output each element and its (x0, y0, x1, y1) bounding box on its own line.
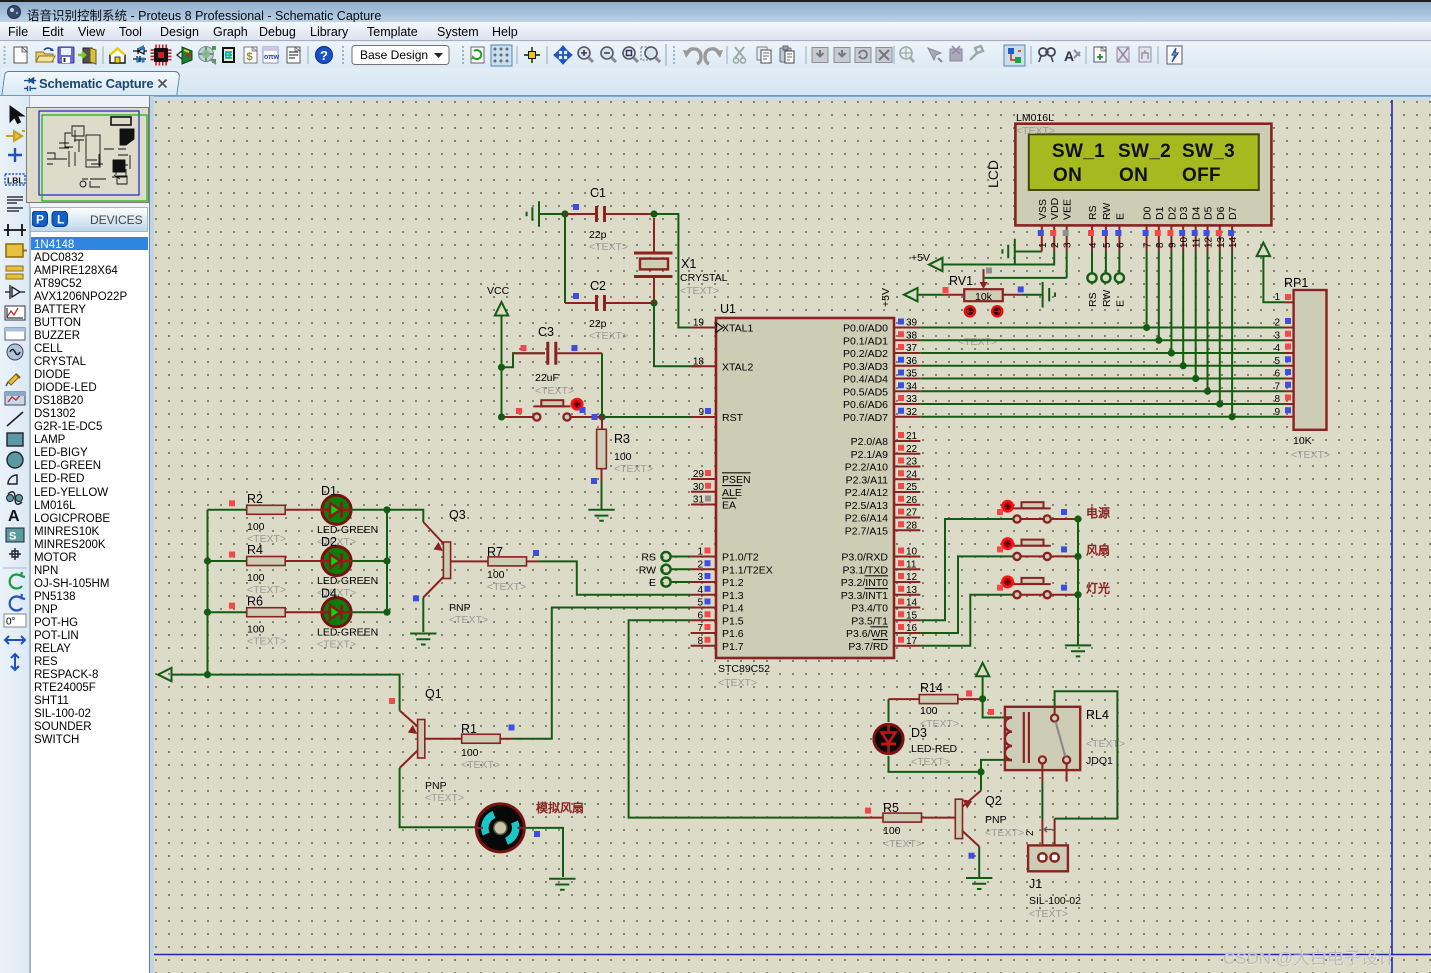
svg-text:P2.7/A15: P2.7/A15 (845, 525, 888, 537)
wire from pin 16 (920, 556, 1013, 633)
resistor R5 (883, 813, 922, 822)
svg-text:D4: D4 (1191, 206, 1203, 220)
junction (498, 364, 505, 371)
svg-text:22p: 22p (589, 318, 607, 330)
svg-text:<TEXT>: <TEXT> (425, 792, 464, 804)
svg-text:VDD: VDD (1049, 197, 1061, 220)
junction (1155, 337, 1162, 344)
svg-text:Q3: Q3 (449, 508, 466, 522)
wire (172, 675, 400, 711)
svg-text:J1: J1 (1029, 877, 1042, 891)
svg-text:25: 25 (906, 482, 918, 493)
svg-text:XTAL2: XTAL2 (722, 361, 753, 373)
svg-text:<TEXT>: <TEXT> (449, 614, 488, 626)
junction (561, 210, 568, 217)
wire D5 (1207, 252, 1209, 392)
svg-text:100: 100 (614, 451, 632, 463)
wire (601, 353, 603, 417)
svg-text:LCD: LCD (985, 160, 1001, 188)
button 灯光 (1014, 583, 1051, 585)
wire (539, 213, 565, 215)
pin 29 PSEN (691, 478, 716, 480)
wire (352, 560, 387, 562)
svg-text:7: 7 (697, 623, 703, 634)
svg-text:<TEXT>: <TEXT> (317, 638, 356, 650)
svg-text:JDQ1: JDQ1 (1086, 755, 1113, 767)
wire (983, 699, 1005, 718)
svg-text:R7: R7 (487, 545, 503, 559)
svg-text:STC89C52: STC89C52 (718, 663, 770, 675)
wire D7 (1231, 252, 1233, 417)
pin 2 (RP1) (1284, 327, 1294, 329)
svg-text:P0.6/AD6: P0.6/AD6 (843, 399, 888, 411)
svg-text:7: 7 (1143, 242, 1154, 248)
svg-text:RW: RW (1101, 290, 1113, 307)
svg-text:SW_2: SW_2 (1118, 141, 1171, 162)
junction (1180, 362, 1187, 369)
node RS (LCD) (1091, 252, 1093, 274)
svg-text:<TEXT>: <TEXT> (535, 385, 574, 397)
wire relay NC stub (1066, 764, 1068, 782)
svg-text:P1.3: P1.3 (722, 590, 744, 602)
wire P0.2 bus (920, 352, 1284, 354)
svg-text:E: E (1114, 300, 1126, 307)
svg-text:D4: D4 (321, 586, 337, 600)
pin 37 P0.2/AD2 (894, 352, 920, 354)
svg-text:26: 26 (906, 495, 918, 506)
svg-text:13: 13 (1216, 236, 1227, 248)
wire (513, 608, 691, 739)
svg-text:6: 6 (1274, 369, 1280, 380)
junction (1143, 324, 1150, 331)
svg-text:10K: 10K (1293, 435, 1312, 447)
svg-text:Q1: Q1 (425, 687, 442, 701)
wire relay pole to J1 (1041, 764, 1043, 783)
pin 2 P1.1/T2EX (691, 568, 716, 570)
pin 28 P2.7/A15 (894, 529, 920, 531)
svg-text:R2: R2 (247, 492, 263, 506)
svg-text:100: 100 (247, 623, 265, 635)
wire P0.0 bus (920, 327, 1284, 329)
svg-text:+5V: +5V (880, 288, 892, 307)
svg-text:P1.6: P1.6 (722, 628, 744, 640)
svg-text:LBL: LBL (7, 176, 24, 186)
pin 3 (RP1) (1284, 339, 1294, 341)
LED D4 (LED-GREEN) (322, 598, 351, 627)
svg-text:16: 16 (906, 623, 918, 634)
svg-text:A: A (1064, 48, 1074, 64)
svg-text:9: 9 (1274, 407, 1280, 418)
relay RL4 (JDQ1) (1005, 707, 1080, 770)
svg-text:32: 32 (906, 407, 918, 418)
wire relay NO loop (1054, 707, 1056, 715)
svg-text:1: 1 (697, 547, 703, 558)
svg-text:VCC: VCC (487, 285, 510, 297)
svg-text:U1: U1 (720, 302, 736, 316)
pin 11 P3.1/TXD (894, 568, 920, 570)
svg-text:RST: RST (722, 412, 744, 424)
svg-text:31: 31 (693, 495, 705, 506)
svg-text:RS: RS (641, 552, 656, 564)
ground (966, 878, 992, 889)
svg-text:<TEXT>: <TEXT> (589, 241, 628, 253)
pin 26 P2.5/A13 (894, 504, 920, 506)
junction (1192, 375, 1199, 382)
svg-text:<TEXT>: <TEXT> (718, 677, 757, 689)
pin 16 P3.6/WR (894, 632, 920, 634)
pin 14 P3.4/T0 (894, 607, 920, 609)
svg-text:8: 8 (1274, 394, 1280, 405)
svg-text:19: 19 (693, 318, 705, 329)
svg-text:电源: 电源 (1086, 505, 1110, 520)
pin 31 EA (691, 504, 716, 506)
svg-text:12: 12 (906, 572, 918, 583)
wire P0.4 bus (920, 378, 1284, 380)
svg-text:LED-GREEN: LED-GREEN (317, 524, 378, 536)
svg-text:100: 100 (461, 747, 479, 759)
svg-text:<TEXT>: <TEXT> (1291, 449, 1330, 461)
pin 17 P3.7/RD (894, 645, 920, 647)
svg-text:P3.1/TXD: P3.1/TXD (842, 564, 888, 576)
svg-text:<TEXT>: <TEXT> (461, 759, 500, 771)
svg-text:X1: X1 (681, 257, 696, 271)
svg-text:P2.4/A12: P2.4/A12 (845, 487, 888, 499)
power arrow left (158, 668, 172, 681)
pin 6 (RP1) (1284, 378, 1294, 380)
svg-text:SW_1: SW_1 (1052, 141, 1105, 162)
svg-text:<TEXT>: <TEXT> (958, 336, 997, 348)
svg-text:5: 5 (697, 598, 703, 609)
svg-text:LM016L: LM016L (1016, 112, 1054, 124)
pin 30 ALE (691, 491, 716, 493)
wire D2 (1170, 252, 1172, 354)
svg-text:PNP: PNP (985, 814, 1007, 826)
svg-text:Base Design: Base Design (360, 48, 428, 62)
pin 1 (RP1) (1284, 301, 1294, 303)
svg-text:RS: RS (1087, 292, 1099, 307)
svg-text:LED-RED: LED-RED (911, 743, 958, 755)
svg-text:RL4: RL4 (1086, 708, 1109, 722)
transistor Q2 (PNP) (980, 772, 982, 791)
svg-text:7: 7 (1274, 381, 1280, 392)
ground (LCD VSS) (1015, 251, 1042, 253)
junction (1074, 553, 1081, 560)
wire D1 (1158, 252, 1160, 341)
wire (502, 353, 546, 367)
resistor R1 (462, 734, 501, 743)
svg-text:?: ? (320, 48, 328, 63)
pin 10 P3.0/RXD (894, 556, 920, 558)
svg-text:P0.4/AD4: P0.4/AD4 (843, 374, 888, 386)
svg-text:P1.0/T2: P1.0/T2 (722, 552, 759, 564)
svg-text:P3.0/RXD: P3.0/RXD (841, 552, 888, 564)
svg-text:100: 100 (487, 569, 505, 581)
svg-text:36: 36 (906, 356, 918, 367)
svg-text:PNP: PNP (425, 780, 447, 792)
svg-text:P3.2/INT0: P3.2/INT0 (841, 577, 888, 589)
resistor R3 (601, 417, 603, 429)
svg-text:29: 29 (693, 469, 705, 480)
svg-text:100: 100 (883, 825, 901, 837)
wire VEE (1066, 252, 1068, 278)
svg-text:18: 18 (693, 356, 705, 367)
svg-text:P2.2/A10: P2.2/A10 (845, 462, 888, 474)
svg-text:6: 6 (1115, 242, 1126, 248)
svg-text:P2.0/A8: P2.0/A8 (851, 436, 889, 448)
ground (1065, 645, 1091, 656)
junction (1074, 515, 1081, 522)
svg-text:3: 3 (1063, 242, 1074, 248)
wire P0.1 bus (920, 339, 1284, 341)
svg-text:P3.7/RD: P3.7/RD (848, 641, 888, 653)
svg-text:0°: 0° (6, 617, 16, 628)
svg-text:13: 13 (906, 585, 918, 596)
svg-text:<TEXT>: <TEXT> (589, 330, 628, 342)
svg-text:P0.0/AD0: P0.0/AD0 (843, 323, 888, 335)
transistor Q3 (PNP) (423, 522, 443, 544)
svg-text:P1.2: P1.2 (722, 577, 744, 589)
svg-text:33: 33 (906, 394, 918, 405)
wire (978, 847, 980, 878)
wire (889, 756, 982, 772)
pin 13 P3.3/INT1 (894, 594, 920, 596)
junction (1204, 388, 1211, 395)
svg-text:4: 4 (1274, 343, 1280, 354)
svg-text:R6: R6 (247, 594, 263, 608)
ground (549, 879, 575, 890)
svg-text:15: 15 (906, 610, 918, 621)
svg-text:38: 38 (906, 330, 918, 341)
svg-text:14: 14 (906, 598, 918, 609)
svg-text:P: P (36, 213, 44, 227)
svg-text:<TEXT>: <TEXT> (247, 635, 286, 647)
svg-text:XTAL1: XTAL1 (722, 323, 753, 335)
svg-text:P3.3/INT1: P3.3/INT1 (841, 590, 888, 602)
svg-text:P1.1/T2EX: P1.1/T2EX (722, 564, 773, 576)
svg-text:SW_3: SW_3 (1182, 141, 1235, 162)
junction (979, 695, 986, 702)
svg-text:11: 11 (1192, 237, 1203, 248)
button RESET (533, 405, 570, 407)
junction (1074, 591, 1081, 598)
junction (977, 768, 984, 775)
svg-text:<TEXT>: <TEXT> (985, 827, 1024, 839)
svg-text:风扇: 风扇 (1086, 542, 1110, 557)
svg-text:14: 14 (1228, 236, 1239, 248)
svg-text:RW: RW (1101, 203, 1113, 220)
svg-text:P1.4: P1.4 (722, 603, 744, 615)
pin 27 P2.6/A14 (894, 517, 920, 519)
pin 25 P2.4/A12 (894, 491, 920, 493)
svg-text:27: 27 (906, 508, 918, 519)
LED D2 (LED-GREEN) (322, 546, 351, 575)
pin 39 P0.0/AD0 (894, 327, 920, 329)
svg-text:D5: D5 (1203, 206, 1215, 220)
svg-text:<TEXT>: <TEXT> (911, 756, 950, 768)
svg-text:4: 4 (697, 585, 703, 596)
svg-text:100: 100 (247, 521, 265, 533)
wire (501, 316, 503, 418)
LCD display LM016L (1015, 124, 1271, 226)
svg-text:ON: ON (1119, 165, 1148, 186)
wire (982, 676, 984, 698)
svg-text:PSEN: PSEN (722, 474, 751, 486)
capacitor C1 (597, 206, 605, 222)
svg-text:RP1: RP1 (1284, 276, 1308, 290)
wire P0.7 bus (920, 416, 1284, 418)
wire (525, 828, 564, 877)
wire P0.3 bus (920, 365, 1284, 367)
svg-text:<TEXT>: <TEXT> (1029, 908, 1068, 920)
wire (943, 252, 1055, 265)
power +5V (RP1) (1257, 243, 1270, 257)
svg-text:P2.6/A14: P2.6/A14 (845, 513, 888, 525)
LED D1 (LED-GREEN) (322, 495, 351, 524)
capacitor C2 (597, 295, 605, 311)
svg-text:P3.4/T0: P3.4/T0 (851, 603, 888, 615)
svg-text:C2: C2 (590, 279, 606, 293)
resistor R4 (208, 560, 247, 562)
svg-text:22: 22 (906, 444, 918, 455)
svg-text:+5V: +5V (911, 252, 930, 264)
junction (204, 671, 211, 678)
wire (601, 481, 603, 509)
svg-text:4: 4 (1088, 242, 1099, 248)
wire D6 (1219, 252, 1221, 405)
wire (422, 598, 424, 633)
svg-text:R4: R4 (247, 543, 263, 557)
wire (654, 303, 701, 366)
wire D3 (1182, 252, 1184, 366)
pin 12 P3.2/INT0 (894, 581, 920, 583)
svg-text:10: 10 (906, 547, 918, 558)
svg-text:22uF: 22uF (535, 372, 559, 384)
svg-text:E: E (649, 577, 656, 589)
button 电源 (1014, 507, 1051, 509)
node RS (661, 552, 670, 561)
pin 36 P0.3/AD3 (894, 365, 920, 367)
svg-text:22p: 22p (589, 229, 607, 241)
wire (1054, 819, 1056, 854)
svg-text:CRYSTAL: CRYSTAL (680, 272, 728, 284)
wire (352, 509, 387, 511)
svg-text:S: S (9, 531, 16, 543)
pin 33 P0.6/AD6 (894, 403, 920, 405)
svg-text:10: 10 (1179, 236, 1190, 248)
svg-text:D0: D0 (1142, 206, 1154, 220)
junction (650, 299, 657, 306)
svg-text:R14: R14 (920, 681, 943, 695)
svg-text:L: L (57, 213, 64, 227)
svg-text:D1: D1 (1154, 206, 1166, 220)
svg-text:6: 6 (697, 610, 703, 621)
pin 23 P2.2/A10 (894, 466, 920, 468)
svg-text:5: 5 (1274, 356, 1280, 367)
node E (LCD) (1118, 252, 1120, 274)
svg-text:17: 17 (906, 636, 918, 647)
svg-text:P0.3/AD3: P0.3/AD3 (843, 361, 888, 373)
junction (383, 609, 390, 616)
svg-text:2: 2 (1274, 318, 1280, 329)
pin 38 P0.1/AD1 (894, 339, 920, 341)
svg-text:39: 39 (906, 318, 918, 329)
capacitor C3 (548, 342, 556, 365)
wire P0.5 bus (920, 390, 1284, 392)
svg-text:D2: D2 (321, 535, 337, 549)
ground (C1/C2 net) (527, 201, 539, 227)
svg-text:37: 37 (906, 343, 918, 354)
svg-text:34: 34 (906, 381, 918, 392)
button 风扇 (1014, 545, 1051, 547)
svg-text:RV1: RV1 (949, 274, 973, 288)
svg-text:2: 2 (697, 559, 703, 570)
junction (1168, 349, 1175, 356)
svg-text:P3.5/T1: P3.5/T1 (851, 615, 888, 627)
wire (629, 620, 865, 817)
svg-text:1: 1 (1038, 242, 1049, 248)
svg-text:R3: R3 (614, 432, 630, 446)
pin 5 (RP1) (1284, 365, 1294, 367)
pin 32 P0.7/AD7 (894, 416, 920, 418)
junction (650, 210, 657, 217)
wire LED bus right (386, 510, 388, 612)
pin 34 P0.5/AD5 (894, 390, 920, 392)
svg-text:oπw: oπw (264, 54, 280, 61)
svg-text:C1: C1 (590, 186, 606, 200)
svg-text:LED-GREEN: LED-GREEN (317, 575, 378, 587)
svg-text:E: E (1114, 213, 1126, 220)
pin 3 P1.2 (691, 581, 716, 583)
svg-text:9: 9 (1167, 242, 1178, 248)
svg-text:11: 11 (906, 559, 917, 570)
svg-text:LED-GREEN: LED-GREEN (317, 626, 378, 638)
svg-text:2: 2 (1050, 242, 1061, 248)
svg-text:<TEXT>: <TEXT> (883, 838, 922, 850)
svg-text:P3.6/WR: P3.6/WR (846, 628, 888, 640)
svg-text:<TEXT>: <TEXT> (1086, 738, 1125, 750)
svg-text:30: 30 (693, 482, 705, 493)
resistor pack RP1 (1294, 290, 1327, 430)
svg-text:P0.1/AD1: P0.1/AD1 (843, 335, 888, 347)
svg-text:3: 3 (1274, 330, 1280, 341)
junction (204, 557, 211, 564)
svg-text:D1: D1 (321, 484, 337, 498)
wire from pin 17 (920, 595, 1013, 646)
resistor R6 (208, 611, 247, 613)
pin 1 P1.0/T2 (691, 556, 716, 558)
svg-text:D3: D3 (911, 726, 927, 740)
svg-text:OFF: OFF (1182, 165, 1221, 186)
svg-text:P2.3/A11: P2.3/A11 (846, 474, 889, 486)
wire (1263, 256, 1284, 302)
ground (RV1) (1043, 282, 1055, 308)
wire (918, 294, 945, 296)
svg-text:P0.7/AD7: P0.7/AD7 (843, 412, 888, 424)
svg-text:A: A (8, 508, 20, 525)
wire (352, 611, 387, 613)
pin 18 XTAL2 (691, 365, 716, 367)
pin 4 (RP1) (1284, 352, 1294, 354)
svg-text:C3: C3 (538, 325, 554, 339)
svg-text:100: 100 (247, 572, 265, 584)
pin 8 P1.7 (691, 645, 716, 647)
svg-text:10k: 10k (975, 291, 993, 303)
resistor R7 (488, 557, 527, 566)
svg-text:模拟风扇: 模拟风扇 (536, 800, 584, 815)
svg-text:P0.2/AD2: P0.2/AD2 (843, 348, 888, 360)
wire (387, 510, 423, 522)
wire P0.6 bus (920, 403, 1284, 405)
